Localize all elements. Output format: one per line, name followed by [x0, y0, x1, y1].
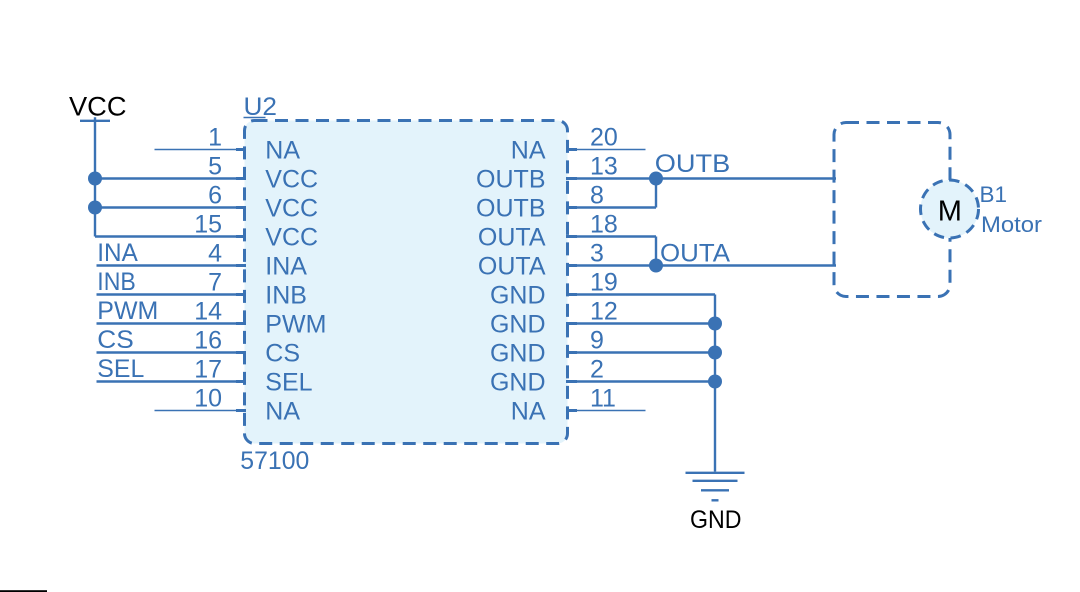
svg-text:OUTA: OUTA: [478, 252, 546, 280]
svg-text:GND: GND: [490, 339, 546, 367]
pin 10 stub: [236, 409, 246, 412]
svg-text:B1: B1: [980, 182, 1008, 207]
svg-text:PWM: PWM: [97, 297, 158, 325]
svg-text:17: 17: [194, 356, 222, 384]
wire pin 3 OUTA to motor: [566, 264, 836, 266]
wire OUTB vertical join: [655, 179, 657, 208]
svg-text:OUTB: OUTB: [476, 194, 545, 222]
wire PWM to pin 14: [97, 322, 247, 324]
svg-text:20: 20: [590, 124, 618, 152]
motor B1 enclosure box: [834, 123, 950, 297]
svg-text:14: 14: [194, 298, 222, 326]
svg-text:5: 5: [208, 153, 222, 181]
svg-text:NA: NA: [511, 136, 546, 164]
pin 3 stub: [566, 264, 577, 267]
wire INB to pin 7: [97, 293, 247, 295]
junction dot OUTA: [649, 259, 663, 273]
black corner mark bottom-left: [0, 590, 47, 592]
svg-text:13: 13: [590, 153, 618, 181]
ground symbol bar 1: [686, 472, 745, 474]
ground symbol bar 4: [712, 499, 719, 501]
svg-text:VCC: VCC: [265, 223, 318, 251]
svg-text:OUTB: OUTB: [655, 150, 731, 178]
junction dot VCC rail pin5: [88, 172, 102, 186]
svg-text:GND: GND: [490, 368, 546, 396]
svg-text:OUTB: OUTB: [476, 165, 545, 193]
wire VCC vertical rail: [94, 117, 96, 236]
IC U2 label underline: [244, 117, 266, 119]
pin 14 stub: [236, 322, 246, 325]
pin 8 stub: [566, 206, 577, 209]
svg-text:SEL: SEL: [97, 355, 144, 383]
svg-text:6: 6: [208, 182, 222, 210]
wire pin 1 NA: [155, 149, 247, 151]
svg-text:NA: NA: [265, 397, 300, 425]
svg-text:15: 15: [194, 211, 222, 239]
svg-text:GND: GND: [490, 281, 546, 309]
svg-text:VCC: VCC: [265, 165, 318, 193]
pin 20 stub: [566, 148, 577, 151]
svg-text:8: 8: [590, 182, 604, 210]
svg-text:CS: CS: [97, 326, 134, 354]
pin 9 stub: [566, 351, 577, 354]
pin 6 stub: [236, 206, 246, 209]
svg-text:19: 19: [590, 269, 618, 297]
pin 16 stub: [236, 351, 246, 354]
pin 15 stub: [236, 235, 246, 238]
wire OUTA vertical join: [655, 237, 657, 266]
wire pin 19 GND: [566, 293, 715, 295]
wire pin 6 to VCC rail: [95, 206, 246, 208]
svg-text:57100: 57100: [240, 447, 309, 475]
wire pin 13 OUTB to motor: [566, 177, 836, 179]
svg-text:16: 16: [194, 327, 222, 355]
svg-text:OUTA: OUTA: [660, 240, 730, 268]
pin 2 stub: [566, 380, 577, 383]
junction dot GND pin12: [708, 317, 722, 331]
wire CS to pin 16: [97, 351, 247, 353]
wire pin 20 NA: [566, 149, 646, 151]
junction dot VCC rail pin6: [88, 201, 102, 215]
pin 7 stub: [236, 293, 246, 296]
wire INA to pin 4: [97, 264, 247, 266]
svg-text:NA: NA: [511, 397, 546, 425]
pin 13 stub: [566, 177, 577, 180]
wire pin 10 NA: [155, 410, 247, 412]
svg-text:9: 9: [590, 327, 604, 355]
svg-text:10: 10: [194, 385, 222, 413]
svg-text:INA: INA: [97, 239, 138, 267]
wire pin 8 OUTB: [566, 206, 656, 208]
wire pin 11 NA: [566, 410, 646, 412]
svg-text:11: 11: [590, 385, 616, 413]
motor B1 circle: [921, 180, 979, 238]
pin 18 stub: [566, 235, 577, 238]
junction dot GND pin2: [708, 375, 722, 389]
wire pin 5 to VCC rail: [95, 177, 246, 179]
ground symbol bar 2: [693, 480, 738, 482]
pin 19 stub: [566, 293, 577, 296]
svg-text:3: 3: [590, 240, 604, 268]
VCC power symbol bar: [80, 120, 110, 122]
wire pin 15 to VCC rail: [95, 235, 246, 237]
wire GND vertical rail: [714, 295, 716, 472]
svg-text:PWM: PWM: [265, 310, 326, 338]
wire pin 12 GND: [566, 322, 715, 324]
svg-text:INB: INB: [265, 281, 307, 309]
svg-text:18: 18: [590, 211, 618, 239]
svg-text:NA: NA: [265, 136, 300, 164]
pin 1 stub: [236, 148, 246, 151]
wire SEL to pin 17: [97, 380, 247, 382]
svg-text:OUTA: OUTA: [478, 223, 546, 251]
pin 5 stub: [236, 177, 246, 180]
IC U2 body: [245, 121, 568, 444]
pin 17 stub: [236, 380, 246, 383]
ground symbol bar 3: [701, 489, 729, 491]
svg-text:1: 1: [208, 124, 222, 152]
svg-text:M: M: [938, 196, 962, 228]
svg-text:12: 12: [590, 298, 618, 326]
junction dot OUTB: [649, 172, 663, 186]
pin 4 stub: [236, 264, 246, 267]
svg-text:SEL: SEL: [265, 368, 312, 396]
svg-text:7: 7: [208, 269, 222, 297]
svg-text:Motor: Motor: [981, 212, 1042, 237]
wire pin 9 GND: [566, 351, 715, 353]
svg-text:INA: INA: [265, 252, 307, 280]
wire pin 18 OUTA: [566, 235, 656, 237]
svg-text:CS: CS: [265, 339, 300, 367]
junction dot GND pin9: [708, 346, 722, 360]
pin 11 stub: [566, 409, 577, 412]
svg-text:INB: INB: [97, 268, 136, 296]
wire pin 2 GND: [566, 380, 715, 382]
svg-text:GND: GND: [690, 506, 742, 534]
svg-text:VCC: VCC: [265, 194, 318, 222]
svg-text:4: 4: [208, 240, 222, 268]
svg-text:VCC: VCC: [69, 92, 127, 122]
svg-text:GND: GND: [490, 310, 546, 338]
pin 12 stub: [566, 322, 577, 325]
svg-text:2: 2: [590, 356, 604, 384]
